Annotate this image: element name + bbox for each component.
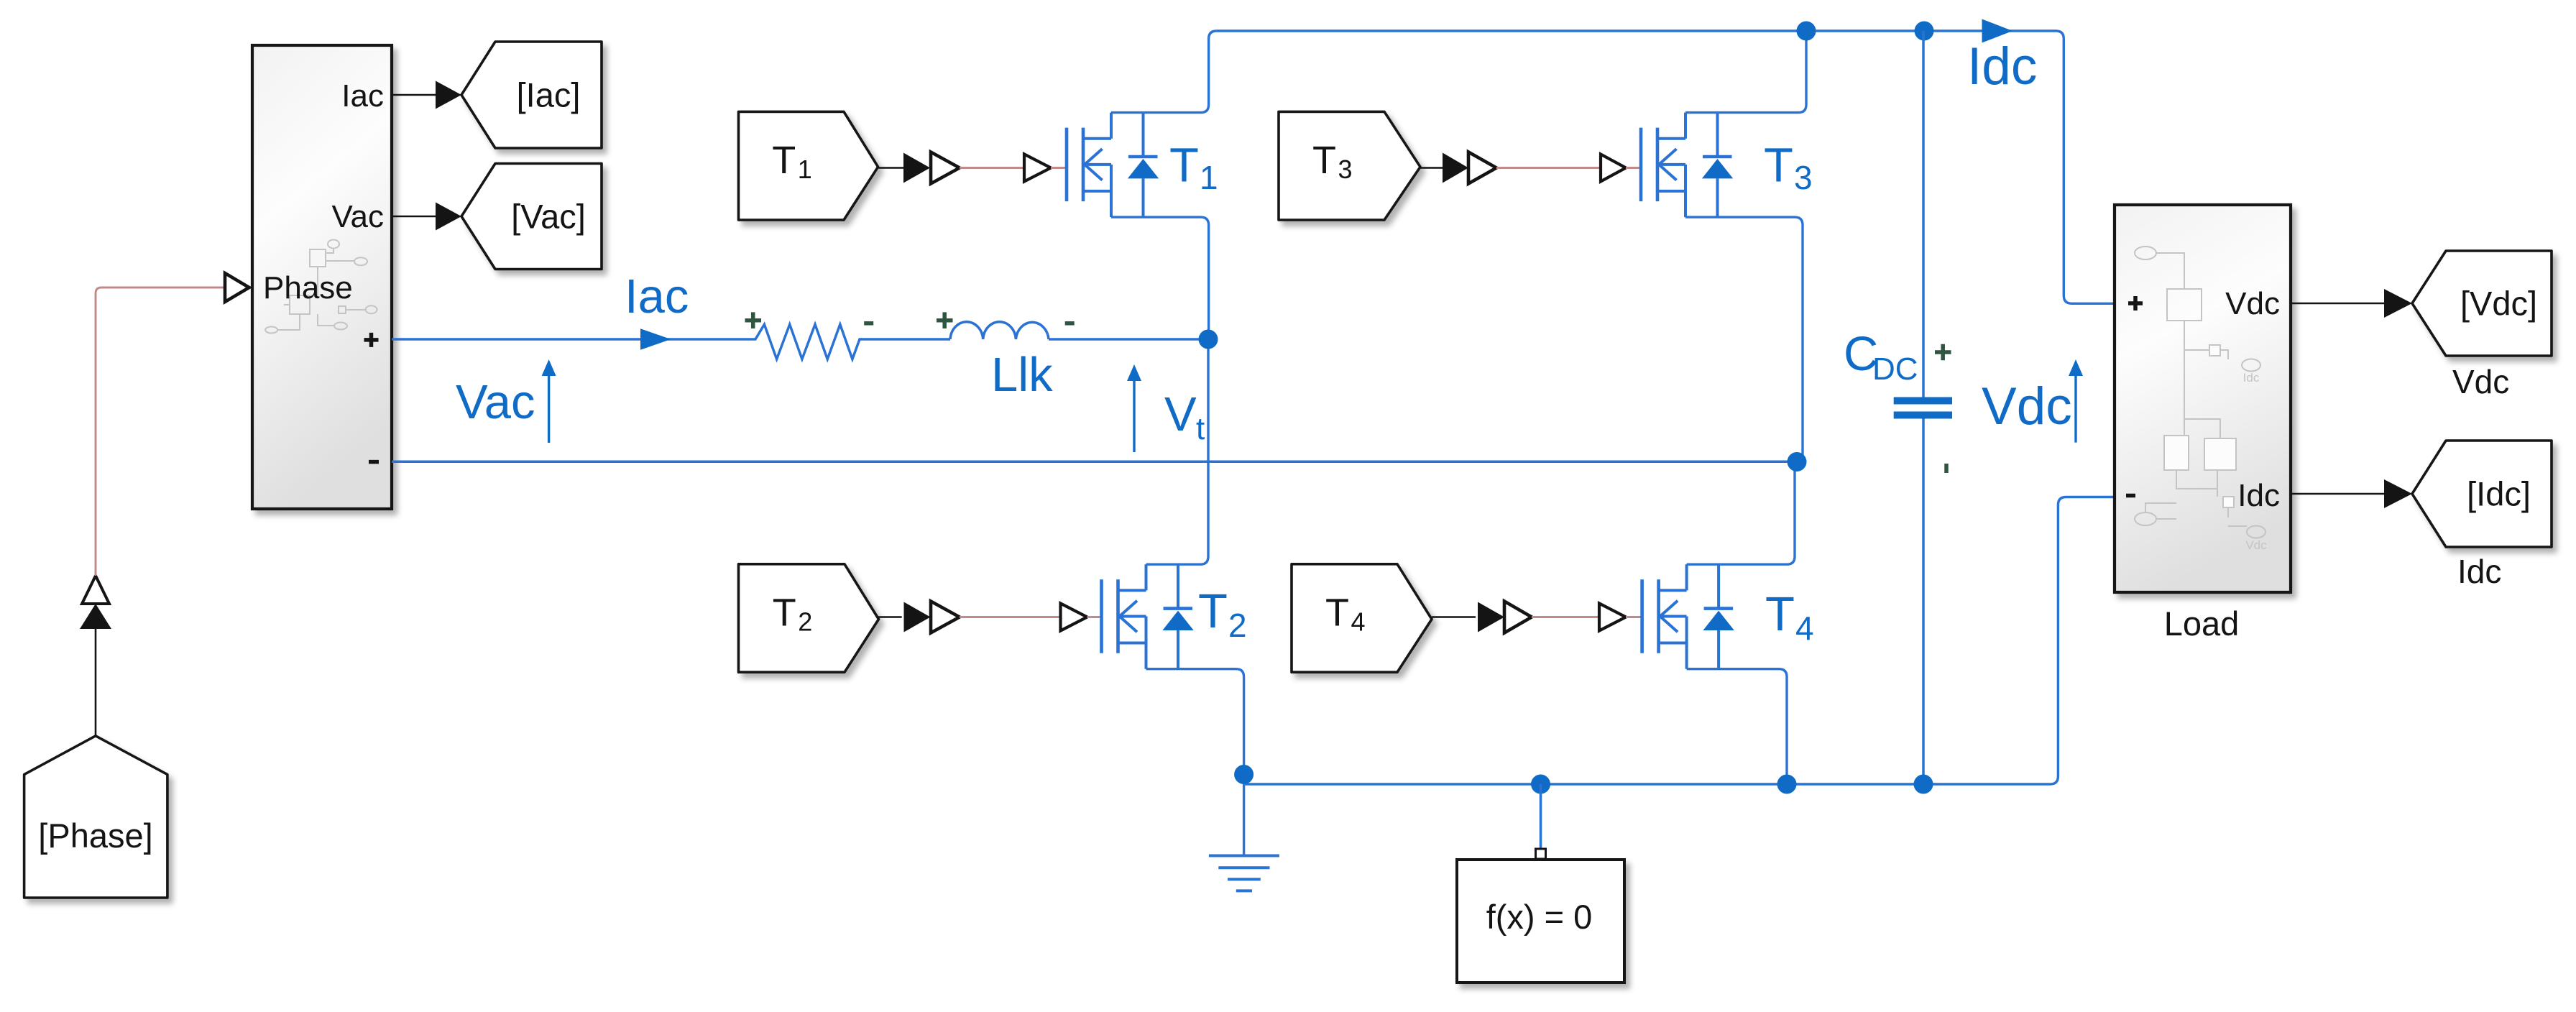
svg-text:T: T: [1312, 139, 1336, 182]
svg-text:Vac: Vac: [456, 375, 535, 429]
svg-text:Llk: Llk: [991, 348, 1053, 402]
svg-text:Vdc: Vdc: [2452, 363, 2509, 400]
svg-text:[Iac]: [Iac]: [517, 76, 581, 114]
svg-text:Idc: Idc: [1967, 37, 2037, 96]
svg-text:V: V: [1164, 387, 1197, 441]
svg-text:1: 1: [798, 155, 812, 184]
svg-text:t: t: [1196, 411, 1205, 446]
svg-text:T: T: [1198, 584, 1228, 638]
svg-text:T: T: [1764, 139, 1793, 193]
svg-text:[Vac]: [Vac]: [511, 198, 586, 236]
svg-text:[Idc]: [Idc]: [2467, 475, 2531, 513]
svg-text:2: 2: [1228, 607, 1247, 644]
svg-text:T: T: [1765, 587, 1795, 641]
svg-text:3: 3: [1338, 155, 1352, 184]
svg-text:Load: Load: [2164, 604, 2240, 643]
svg-text:2: 2: [798, 607, 812, 637]
svg-text:f(x) = 0: f(x) = 0: [1486, 898, 1593, 936]
svg-text:Vdc: Vdc: [1982, 377, 2072, 436]
svg-text:Phase: Phase: [263, 270, 353, 305]
svg-text:T: T: [1325, 592, 1349, 635]
svg-text:Iac: Iac: [625, 270, 689, 323]
svg-text:3: 3: [1794, 159, 1813, 196]
svg-text:[Phase]: [Phase]: [38, 816, 152, 855]
svg-text:Idc: Idc: [2243, 371, 2260, 385]
svg-text:1: 1: [1200, 159, 1218, 196]
svg-text:T: T: [1169, 139, 1199, 193]
svg-text:[Vdc]: [Vdc]: [2460, 285, 2537, 323]
svg-text:Vdc: Vdc: [2225, 286, 2280, 321]
svg-text:Idc: Idc: [2237, 478, 2280, 513]
svg-text:4: 4: [1795, 609, 1814, 647]
svg-text:T: T: [772, 139, 796, 182]
svg-text:Iac: Iac: [341, 78, 384, 114]
svg-text:Idc: Idc: [2457, 553, 2501, 590]
svg-text:T: T: [773, 592, 796, 635]
svg-text:Vac: Vac: [331, 199, 384, 234]
svg-text:DC: DC: [1872, 351, 1918, 387]
svg-text:Vdc: Vdc: [2245, 538, 2267, 552]
svg-text:4: 4: [1351, 607, 1365, 637]
